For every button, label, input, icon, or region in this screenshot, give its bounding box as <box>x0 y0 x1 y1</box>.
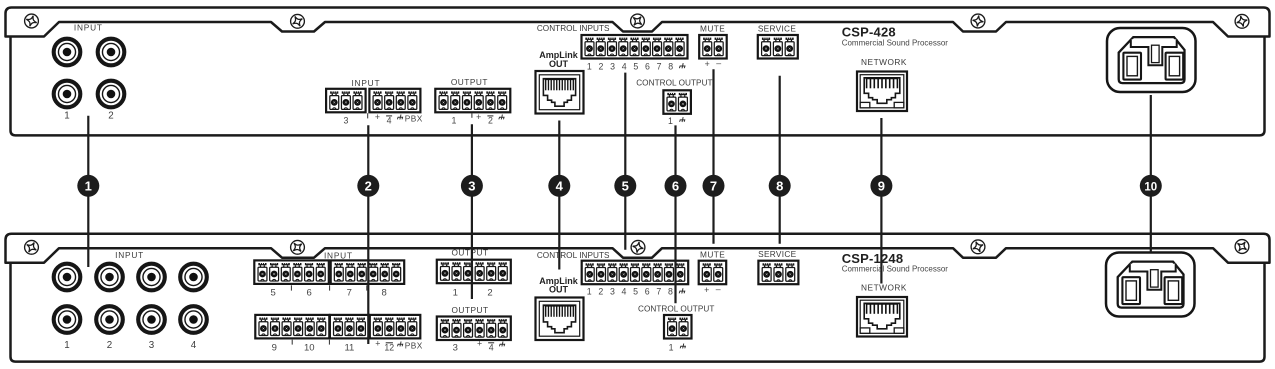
svg-text:2: 2 <box>487 288 492 299</box>
AmpLink OUT RJ45 jack (bottom) <box>536 298 584 341</box>
svg-text:7: 7 <box>656 287 661 297</box>
RCA input jack 2L <box>98 39 125 66</box>
callout line 4 <box>558 121 560 270</box>
svg-text:INPUT: INPUT <box>74 23 103 33</box>
screw top-1 <box>25 14 39 28</box>
svg-text:3: 3 <box>453 343 458 354</box>
output euroblock 1/2 (bottom) <box>437 260 511 284</box>
svg-text:2: 2 <box>108 111 113 122</box>
svg-text:3: 3 <box>610 287 615 297</box>
callout line 1 <box>87 116 89 267</box>
callout line 10 <box>1150 95 1152 252</box>
callout circle 4 <box>548 175 570 197</box>
svg-text:6: 6 <box>645 62 650 72</box>
svg-text:INPUT: INPUT <box>351 78 380 88</box>
svg-text:8: 8 <box>668 287 673 297</box>
svg-text:1: 1 <box>85 178 92 193</box>
RCA input jack 3 top row <box>138 264 165 291</box>
ticks row1 <box>290 285 292 290</box>
callout circle 1 <box>77 175 99 197</box>
svg-text:1: 1 <box>587 287 592 297</box>
svg-text:INPUT: INPUT <box>115 250 144 260</box>
service euroblock (bottom) <box>758 261 798 285</box>
callout line 9 <box>880 118 882 284</box>
RCA input jack 1 bottom row <box>54 306 81 333</box>
screw bottom-1 <box>24 240 39 255</box>
callout circle 6 <box>665 175 687 197</box>
svg-text:1: 1 <box>669 342 674 352</box>
callout circle 10 <box>1140 175 1162 197</box>
screw top-3 <box>630 13 645 28</box>
svg-text:INPUT: INPUT <box>324 250 353 260</box>
svg-text:CONTROL INPUTS: CONTROL INPUTS <box>537 251 610 260</box>
IEC power inlet (bottom) <box>1106 253 1195 317</box>
callout circle 3 <box>461 175 483 197</box>
svg-text:Commercial Sound Processor: Commercial Sound Processor <box>842 39 949 48</box>
svg-text:+: + <box>375 112 380 122</box>
tick between input channels <box>367 113 369 118</box>
svg-text:CSP-428: CSP-428 <box>842 25 896 40</box>
RCA input jack 1R <box>54 81 81 108</box>
callout line 6 <box>674 125 676 303</box>
mute euroblock (2-pin, top) <box>699 35 727 59</box>
input euroblock 3 (3-pin) <box>326 89 366 113</box>
control inputs euroblock (9-pin, top) <box>582 35 688 59</box>
output euroblock 3/4 (bottom) <box>437 317 511 341</box>
callout circle 5 <box>614 175 636 197</box>
svg-text:2: 2 <box>365 178 372 193</box>
NETWORK RJ45 jack (top) <box>857 72 907 112</box>
screw bottom-2 <box>290 240 305 255</box>
svg-text:1: 1 <box>451 116 456 126</box>
callout line 8 <box>779 76 781 244</box>
callout line 7 <box>712 69 714 244</box>
svg-text:3: 3 <box>343 116 348 126</box>
svg-text:7: 7 <box>710 178 717 193</box>
callout circle 9 <box>870 175 892 197</box>
svg-text:9: 9 <box>272 343 277 354</box>
output euroblock (6-pin) <box>435 89 510 113</box>
screw bottom-4 <box>971 240 985 254</box>
screw bottom-5 <box>1234 239 1249 254</box>
svg-text:2: 2 <box>488 116 493 126</box>
callout line 3 <box>471 124 473 299</box>
svg-text:10: 10 <box>304 343 315 354</box>
svg-text:Commercial Sound Processor: Commercial Sound Processor <box>842 264 949 273</box>
svg-text:5: 5 <box>633 287 638 297</box>
svg-text:CONTROL INPUTS: CONTROL INPUTS <box>537 24 610 33</box>
svg-text:PBX: PBX <box>405 114 423 124</box>
svg-text:2: 2 <box>598 287 603 297</box>
svg-text:4: 4 <box>622 62 627 72</box>
svg-text:8: 8 <box>776 178 783 193</box>
svg-text:12: 12 <box>384 343 394 353</box>
input euroblock 9/10 <box>255 315 329 339</box>
svg-text:7: 7 <box>347 288 352 299</box>
svg-text:1: 1 <box>64 111 69 122</box>
control inputs euroblock (9-pin, bottom) <box>582 261 689 285</box>
svg-text:7: 7 <box>657 62 662 72</box>
control output euroblock (bottom) <box>664 315 692 339</box>
svg-text:MUTE: MUTE <box>700 249 725 259</box>
callout circle 2 <box>357 175 379 197</box>
RCA input jack 1 top row <box>54 264 81 291</box>
RCA input jack 1L <box>54 39 81 66</box>
input euroblock 5/6 <box>254 260 328 284</box>
RCA input jack 2R <box>98 81 125 108</box>
svg-text:CONTROL OUTPUT: CONTROL OUTPUT <box>636 79 712 88</box>
mute euroblock (bottom) <box>699 261 727 285</box>
svg-text:2: 2 <box>598 62 603 72</box>
input euroblock 4/PBX (4-pin) <box>369 89 420 113</box>
svg-text:6: 6 <box>672 178 679 193</box>
svg-text:NETWORK: NETWORK <box>861 283 907 293</box>
svg-text:+: + <box>476 112 481 122</box>
screw top-4 <box>971 14 985 28</box>
RCA input jack 4 bottom row <box>180 306 207 333</box>
RCA input jack 4 top row <box>180 264 207 291</box>
input euroblock 7/8 <box>331 260 405 284</box>
svg-text:CONTROL OUTPUT: CONTROL OUTPUT <box>638 305 714 314</box>
svg-text:3: 3 <box>149 340 155 351</box>
svg-text:5: 5 <box>622 178 629 193</box>
svg-text:+: + <box>477 339 482 349</box>
svg-text:OUTPUT: OUTPUT <box>451 248 488 258</box>
RCA input jack 2 bottom row <box>96 306 123 333</box>
svg-text:PBX: PBX <box>405 341 423 351</box>
svg-text:OUTPUT: OUTPUT <box>451 305 488 315</box>
IEC power inlet (top) <box>1107 28 1196 92</box>
svg-text:–: – <box>716 284 721 294</box>
svg-text:8: 8 <box>382 288 387 299</box>
AmpLink OUT RJ45 jack (top) <box>536 71 584 114</box>
NETWORK RJ45 jack (bottom) <box>857 297 907 337</box>
svg-text:5: 5 <box>271 288 276 299</box>
svg-text:+: + <box>375 339 380 349</box>
RCA input jack 3 bottom row <box>138 306 165 333</box>
svg-text:9: 9 <box>878 178 885 193</box>
screw top-5 <box>1235 14 1249 28</box>
screw bottom-3 <box>631 240 645 254</box>
svg-text:+: + <box>705 59 710 69</box>
svg-text:1: 1 <box>587 62 592 72</box>
svg-text:4: 4 <box>489 343 494 353</box>
bottom panel CSP-1248 chassis <box>11 262 1265 362</box>
svg-text:MUTE: MUTE <box>700 23 725 33</box>
svg-text:3: 3 <box>610 62 615 72</box>
svg-text:1: 1 <box>668 116 673 126</box>
svg-text:1: 1 <box>453 288 458 299</box>
svg-text:2: 2 <box>107 340 112 351</box>
svg-text:OUT: OUT <box>549 59 569 69</box>
svg-text:8: 8 <box>668 62 673 72</box>
svg-text:+: + <box>704 285 709 295</box>
service euroblock (3-pin, top) <box>758 35 798 59</box>
svg-text:NETWORK: NETWORK <box>861 57 907 67</box>
svg-text:SERVICE: SERVICE <box>758 23 797 33</box>
callout circle 8 <box>769 175 791 197</box>
RCA input jack 2 top row <box>96 264 123 291</box>
svg-text:3: 3 <box>468 178 475 193</box>
svg-text:OUTPUT: OUTPUT <box>451 77 488 87</box>
callout line 5 <box>624 73 626 250</box>
svg-text:OUT: OUT <box>549 285 569 295</box>
svg-text:4: 4 <box>387 116 392 126</box>
tick output channels <box>471 113 473 117</box>
control output euroblock (2-pin, top) <box>663 90 691 114</box>
ticks row2 <box>291 340 293 345</box>
input euroblock 12/PBX (4-pin) <box>370 315 421 339</box>
svg-text:6: 6 <box>306 288 311 299</box>
callout circle 7 <box>703 175 725 197</box>
svg-text:–: – <box>716 58 721 68</box>
screw top-2 <box>290 14 305 29</box>
callout line 2 <box>367 125 369 344</box>
svg-text:4: 4 <box>556 178 564 193</box>
svg-text:4: 4 <box>191 340 197 351</box>
svg-text:4: 4 <box>622 287 627 297</box>
svg-text:SERVICE: SERVICE <box>758 249 797 259</box>
input euroblock 11 (3-pin) <box>330 315 369 339</box>
top panel CSP-428 chassis <box>11 36 1265 136</box>
svg-text:11: 11 <box>344 343 354 354</box>
svg-text:5: 5 <box>633 62 638 72</box>
svg-text:6: 6 <box>645 287 650 297</box>
svg-text:10: 10 <box>1144 181 1157 193</box>
svg-text:1: 1 <box>64 340 69 351</box>
